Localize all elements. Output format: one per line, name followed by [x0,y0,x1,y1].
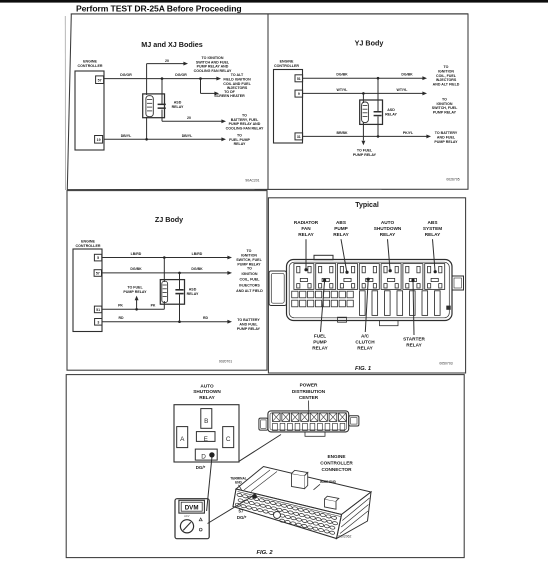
svg-text:DG/BK: DG/BK [191,267,203,271]
svg-text:CONTROLLER: CONTROLLER [78,64,103,68]
svg-text:END: END [235,480,242,484]
svg-text:WT/YL: WT/YL [337,88,349,92]
svg-text:D: D [201,453,206,460]
svg-text:DG/*: DG/* [196,465,206,470]
svg-text:19: 19 [97,138,101,142]
svg-text:SCREEN HEATER: SCREEN HEATER [214,94,245,98]
svg-text:AUTO: AUTO [200,384,214,389]
svg-text:PK/YL: PK/YL [403,131,414,135]
svg-text:DB/YL: DB/YL [182,134,193,138]
svg-text:57: 57 [98,78,102,82]
svg-text:57: 57 [239,509,244,514]
svg-text:PUMP RELAY: PUMP RELAY [353,153,377,157]
svg-text:RELAY: RELAY [298,232,314,237]
svg-text:INJECTORS: INJECTORS [239,283,260,287]
svg-text:AND FUEL: AND FUEL [437,135,456,139]
svg-text:CONTROLLER: CONTROLLER [274,64,299,68]
svg-text:DB/YL: DB/YL [121,134,132,138]
svg-text:DG/BK: DG/BK [130,267,142,271]
svg-text:A: A [180,436,185,443]
svg-text:PUMP RELAY: PUMP RELAY [237,327,261,331]
svg-text:Perform TEST DR-25A Before Pro: Perform TEST DR-25A Before Proceeding [76,3,242,13]
svg-text:MJ and XJ Bodies: MJ and XJ Bodies [141,40,203,49]
svg-text:51: 51 [96,308,100,312]
svg-text:AND ALT FIELD: AND ALT FIELD [236,289,263,293]
svg-text:TO: TO [247,249,252,253]
svg-text:RELAY: RELAY [357,345,373,350]
svg-text:TO BATTERY: TO BATTERY [435,131,458,135]
svg-text:WIRE END: WIRE END [320,480,337,484]
svg-text:IGNITION: IGNITION [437,102,453,106]
svg-text:RD: RD [118,316,124,320]
svg-text:C: C [226,436,231,443]
svg-text:20: 20 [187,116,191,120]
svg-text:5: 5 [97,256,99,260]
svg-text:CONNECTOR: CONNECTOR [321,467,352,472]
svg-text:DISTRIBUTION: DISTRIBUTION [292,389,326,394]
svg-text:AND FUEL: AND FUEL [239,323,258,327]
svg-text:SWITCH, FUEL: SWITCH, FUEL [432,106,458,110]
svg-text:51: 51 [297,77,301,81]
svg-text:RELAY: RELAY [425,232,441,237]
svg-text:TO: TO [247,267,252,271]
svg-text:RADIATOR: RADIATOR [294,220,319,225]
svg-text:DG/OR: DG/OR [120,73,132,77]
svg-text:PK: PK [151,304,156,308]
svg-text:RELAY: RELAY [380,232,396,237]
svg-text:0026705: 0026705 [446,177,459,181]
svg-text:FUEL: FUEL [314,333,326,338]
svg-text:IGNITION: IGNITION [242,272,258,276]
svg-text:Typical: Typical [355,202,379,209]
svg-text:DG/BK: DG/BK [401,73,413,77]
svg-text:LB/RD: LB/RD [131,252,142,256]
svg-text:COOLING FAN RELAY: COOLING FAN RELAY [194,69,232,73]
svg-text:LB/RD: LB/RD [192,252,203,256]
svg-text:9: 9 [298,92,300,96]
svg-text:31: 31 [297,135,301,139]
svg-text:BR/BK: BR/BK [336,131,348,135]
svg-text:COIL, FUEL: COIL, FUEL [436,74,457,78]
svg-text:DVM: DVM [185,505,199,512]
svg-text:SWITCH, FUEL: SWITCH, FUEL [236,258,262,262]
svg-text:PUMP RELAY: PUMP RELAY [433,111,457,115]
svg-text:ASD: ASD [174,100,182,104]
svg-text:RELAY: RELAY [406,342,422,347]
svg-text:20: 20 [165,59,169,63]
svg-text:TO: TO [444,65,449,69]
svg-text:IGNITION: IGNITION [241,254,257,258]
svg-text:RELAY: RELAY [187,292,199,296]
svg-text:COIL, FUEL: COIL, FUEL [240,278,261,282]
svg-text:YJ Body: YJ Body [355,38,384,47]
svg-text:DG/*: DG/* [237,515,247,520]
svg-text:SYSTEM: SYSTEM [423,226,442,231]
svg-text:POWER: POWER [300,382,318,387]
svg-text:ENGINE: ENGINE [328,454,346,459]
svg-text:AUTO: AUTO [381,220,395,225]
svg-text:A/C: A/C [361,333,370,338]
svg-text:ABS: ABS [428,220,438,225]
svg-text:CONTROLLER: CONTROLLER [76,244,101,248]
svg-text:TO: TO [442,97,447,101]
svg-text:COOLING FAN RELAY: COOLING FAN RELAY [226,127,264,131]
svg-text:PUMP RELAY: PUMP RELAY [434,140,458,144]
svg-text:RD: RD [203,316,209,320]
svg-text:FIG. 1: FIG. 1 [355,366,371,372]
svg-text:PUMP RELAY: PUMP RELAY [123,290,147,294]
svg-text:SHUTDOWN: SHUTDOWN [374,226,402,231]
svg-text:CENTER: CENTER [299,395,319,400]
svg-text:RELAY: RELAY [385,112,397,116]
svg-text:CONTROLLER: CONTROLLER [320,460,353,465]
svg-text:ACV: ACV [184,514,190,518]
svg-text:0102062: 0102062 [338,535,351,539]
svg-text:B: B [204,418,208,425]
svg-text:TO FUEL: TO FUEL [357,148,373,152]
svg-text:90AC201: 90AC201 [245,178,259,182]
svg-text:ASD: ASD [189,288,197,292]
svg-text:SHUTDOWN: SHUTDOWN [193,389,221,394]
svg-text:PK: PK [118,304,123,308]
svg-text:0020701: 0020701 [219,359,232,363]
svg-text:ZJ Body: ZJ Body [155,215,183,224]
svg-text:PUMP: PUMP [334,226,348,231]
svg-text:ASD: ASD [387,108,395,112]
svg-text:3: 3 [97,320,99,324]
svg-text:AND ALT FIELD: AND ALT FIELD [433,83,460,87]
svg-text:INJECTORS: INJECTORS [436,78,457,82]
svg-text:RELAY: RELAY [333,232,349,237]
svg-text:WT/YL: WT/YL [397,88,409,92]
svg-text:PUMP: PUMP [313,339,327,344]
svg-text:57: 57 [96,272,100,276]
svg-text:RELAY: RELAY [172,105,184,109]
svg-text:CLUTCH: CLUTCH [355,339,375,344]
svg-text:RELAY: RELAY [234,142,246,146]
svg-text:FIG. 2: FIG. 2 [256,550,273,556]
svg-text:RELAY: RELAY [312,345,328,350]
svg-text:FAN: FAN [301,226,311,231]
svg-text:TO FUEL: TO FUEL [127,286,143,290]
svg-text:TO BATTERY: TO BATTERY [237,318,260,322]
svg-text:STARTER: STARTER [403,336,425,341]
svg-text:ABS: ABS [336,220,346,225]
svg-text:IGNITION: IGNITION [438,69,454,73]
svg-text:DG/BK: DG/BK [336,73,348,77]
svg-text:E: E [204,436,208,443]
svg-text:0050703: 0050703 [439,362,452,366]
svg-text:RELAY: RELAY [199,395,215,400]
svg-text:DG/OR: DG/OR [175,73,187,77]
